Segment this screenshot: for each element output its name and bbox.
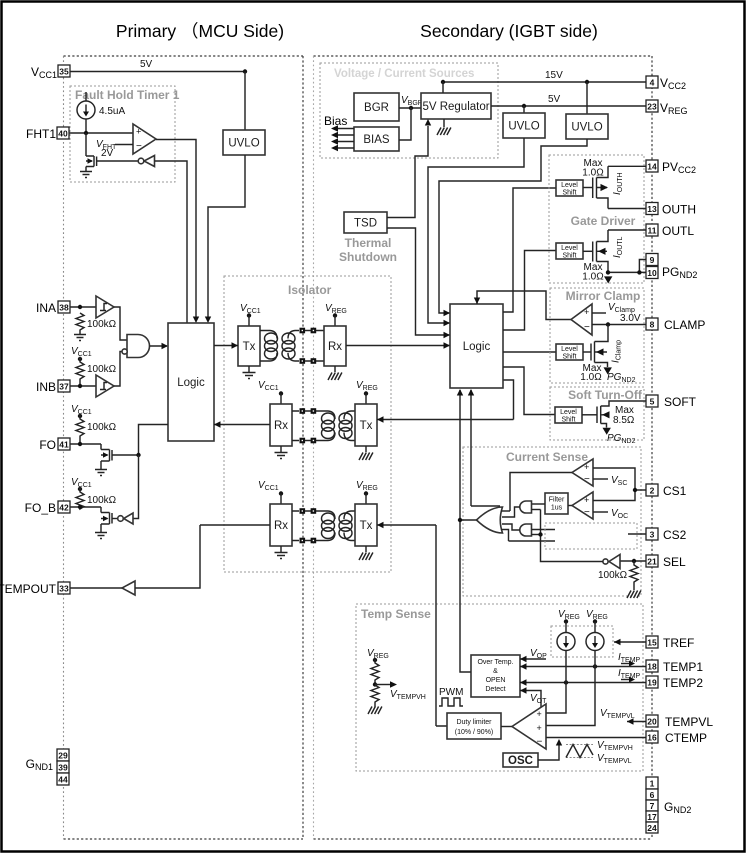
ground INA bbox=[74, 332, 86, 341]
node VCC1 INB bbox=[78, 357, 82, 361]
svg-text:CTEMP: CTEMP bbox=[665, 731, 707, 745]
wire VBGR to BIAS bbox=[399, 108, 411, 140]
CS2 inner dashed box bbox=[545, 523, 637, 549]
node 5V UVLO1 bbox=[522, 104, 526, 108]
node 15V UVLO2 bbox=[585, 80, 589, 84]
resistor FO_B pullup 100k bbox=[76, 487, 84, 509]
Rx3 box bbox=[270, 494, 292, 547]
Soft Turn-Off dashed box bbox=[550, 387, 644, 440]
isolation pads ch1 bbox=[300, 328, 325, 364]
svg-text:Shift: Shift bbox=[562, 253, 576, 260]
svg-text:−: − bbox=[584, 507, 590, 518]
svg-text:Tx: Tx bbox=[360, 420, 373, 432]
transformer ch2 right winding bbox=[339, 411, 355, 441]
svg-text:OSC: OSC bbox=[508, 755, 533, 767]
pin 4 VCC2 bbox=[646, 76, 686, 91]
svg-text:Soft Turn-Off: Soft Turn-Off bbox=[568, 388, 643, 402]
ground FHT bbox=[80, 172, 92, 178]
wire Logic to LS soft bbox=[503, 367, 555, 415]
svg-text:Mirror Clamp: Mirror Clamp bbox=[566, 289, 641, 303]
node VCC1 Rx2 bbox=[279, 391, 283, 395]
pin 23 VREG bbox=[646, 100, 688, 116]
node INB bbox=[78, 384, 82, 388]
node CS1 bbox=[633, 488, 637, 492]
node INA bbox=[78, 305, 82, 309]
svg-text:Level: Level bbox=[561, 182, 578, 189]
pin 2 CS1 bbox=[635, 484, 687, 498]
Level Shift soft bbox=[555, 407, 582, 424]
svg-text:FO_B: FO_B bbox=[25, 501, 56, 515]
node 15V regulator input bbox=[441, 80, 445, 84]
wire AND1 out to OR bbox=[502, 507, 520, 517]
pin 18 TEMP1 bbox=[646, 660, 703, 674]
node PGND2 bracket bbox=[637, 270, 641, 274]
buffer TEMPOUT bbox=[122, 581, 135, 595]
svg-text:TREF: TREF bbox=[663, 636, 694, 650]
wire logic to over temp box bbox=[460, 520, 471, 672]
Voltage / Current Sources dashed box bbox=[320, 63, 498, 158]
inverter SEL bbox=[603, 555, 620, 569]
wire INB buffer to NAND bubble bbox=[114, 352, 122, 387]
svg-text:2: 2 bbox=[650, 486, 655, 496]
BGR box bbox=[354, 93, 399, 121]
svg-text:PWM: PWM bbox=[439, 687, 463, 698]
Mirror Clamp dashed box bbox=[550, 288, 644, 383]
svg-text:1.0Ω: 1.0Ω bbox=[582, 272, 604, 283]
arrow clamp comp into Logic bbox=[474, 298, 480, 305]
wire VOC comp to filter bbox=[568, 505, 572, 507]
svg-text:15: 15 bbox=[647, 638, 657, 648]
node CLAMP bbox=[606, 322, 610, 326]
GND2 pins 1 6 7 17 24 bbox=[646, 777, 691, 833]
wire comparator out to Logic bbox=[156, 140, 196, 321]
arrow ITEMP 1 bbox=[621, 663, 630, 665]
svg-text:Bias: Bias bbox=[324, 114, 347, 128]
node VREG Tx3 bbox=[364, 491, 368, 495]
node FO gate bbox=[136, 453, 140, 457]
wire TEMP2 bbox=[520, 682, 646, 684]
BIAS box bbox=[354, 127, 399, 151]
wire INA buffer to NAND bbox=[114, 307, 127, 340]
resistor FO pullup 100k bbox=[76, 414, 84, 444]
node VREG Tx2 bbox=[364, 391, 368, 395]
OR gate overcurrent bbox=[477, 507, 503, 533]
Tx1 box bbox=[238, 316, 260, 367]
wire FO node down to inverter bbox=[133, 455, 139, 519]
svg-text:8.5Ω: 8.5Ω bbox=[613, 415, 635, 426]
arrow UVLO into Logic bbox=[205, 317, 211, 324]
wire VSC comparator output bbox=[510, 473, 572, 512]
wire CLAMP line bbox=[592, 324, 646, 326]
svg-text:7: 7 bbox=[650, 801, 655, 811]
arrow aux into box bbox=[520, 687, 527, 693]
svg-text:INB: INB bbox=[36, 380, 56, 394]
transistor FO_B NMOS bbox=[101, 513, 118, 533]
svg-text:100kΩ: 100kΩ bbox=[87, 422, 117, 433]
current source temp 2 bbox=[586, 619, 604, 650]
wire UVLO2 to Logic bbox=[439, 139, 587, 313]
wire Rx1 to Logic secondary bbox=[346, 345, 450, 347]
svg-text:37: 37 bbox=[59, 382, 69, 392]
wire VOP into box bbox=[520, 658, 546, 660]
svg-text:Voltage / Current Sources: Voltage / Current Sources bbox=[334, 68, 474, 80]
wire VFHT to comparator minus bbox=[115, 144, 133, 146]
svg-text:BGR: BGR bbox=[364, 102, 389, 114]
svg-text:100kΩ: 100kΩ bbox=[598, 570, 628, 581]
svg-text:Tx: Tx bbox=[360, 520, 373, 532]
svg-text:100kΩ: 100kΩ bbox=[87, 495, 117, 506]
svg-text:Logic: Logic bbox=[463, 341, 491, 353]
wire OR input bottom from CS2 bbox=[501, 530, 555, 542]
pin 33 TEMPOUT bbox=[0, 582, 70, 596]
wire AND2 input b bbox=[532, 534, 541, 536]
Fault Hold Timer 1 dashed box bbox=[70, 86, 175, 182]
UVLO secondary 1 bbox=[503, 106, 545, 138]
schmitt buffer INB bbox=[96, 375, 114, 397]
wire FO_B bbox=[70, 507, 110, 513]
wire VOC plus input bbox=[593, 490, 635, 501]
svg-text:14: 14 bbox=[647, 162, 657, 172]
pin 11 OUTL bbox=[608, 224, 694, 238]
svg-text:24: 24 bbox=[647, 823, 657, 833]
svg-text:TSD: TSD bbox=[354, 218, 377, 230]
Filter 1us box bbox=[545, 493, 568, 514]
svg-text:1: 1 bbox=[650, 779, 655, 789]
comparator clamp bbox=[571, 304, 592, 335]
ground 5V Regulator hatched bbox=[437, 119, 451, 135]
node VCC1 Rx3 bbox=[279, 491, 283, 495]
ground FO_B bbox=[95, 533, 107, 539]
inverter FHT bbox=[138, 156, 154, 167]
svg-text:13: 13 bbox=[647, 204, 657, 214]
svg-text:Fault Hold Timer 1: Fault Hold Timer 1 bbox=[75, 88, 180, 102]
node VCC1 Tx1 bbox=[247, 313, 251, 317]
pin 41 FO bbox=[39, 438, 70, 452]
svg-text:TEMPVL: TEMPVL bbox=[665, 715, 713, 729]
Level Shift OUTH bbox=[556, 180, 583, 197]
Logic primary box bbox=[168, 323, 214, 441]
svg-text:OPEN: OPEN bbox=[486, 677, 506, 684]
svg-text:−: − bbox=[584, 474, 590, 485]
wire Logic to LS clamp bbox=[503, 351, 556, 353]
wire Logic to LS OUTL bbox=[503, 251, 556, 331]
wire INA bbox=[70, 306, 96, 308]
isolation pads ch3 bbox=[292, 508, 322, 543]
svg-text:21: 21 bbox=[647, 557, 657, 567]
node SEL bbox=[632, 559, 636, 563]
svg-text:20: 20 bbox=[647, 717, 657, 727]
svg-text:TEMPOUT: TEMPOUT bbox=[0, 582, 57, 596]
svg-text:Duty limiter: Duty limiter bbox=[456, 719, 492, 726]
svg-text:Rx: Rx bbox=[274, 520, 288, 532]
svg-text:Level: Level bbox=[561, 346, 578, 353]
svg-text:(10% / 90%): (10% / 90%) bbox=[455, 729, 494, 736]
GND1 pins 29 39 44 bbox=[26, 749, 69, 785]
ground Tx2 hatched bbox=[359, 446, 373, 460]
AND gate 2 bbox=[520, 524, 532, 536]
arrow VTEMPVH tap bbox=[375, 684, 390, 686]
svg-text:35: 35 bbox=[59, 67, 69, 77]
svg-text:Level: Level bbox=[560, 409, 577, 416]
svg-text:19: 19 bbox=[647, 678, 657, 688]
node SEL and2 bbox=[538, 532, 542, 536]
svg-text:Logic: Logic bbox=[177, 377, 205, 389]
TSD box bbox=[344, 212, 387, 233]
svg-text:FO: FO bbox=[39, 438, 56, 452]
wire SEL to AND gates bbox=[541, 510, 604, 562]
current source 4.5uA bbox=[77, 92, 125, 133]
arrow into Tx3 bbox=[377, 522, 384, 528]
UVLO primary bbox=[223, 130, 265, 155]
wire AND1 input SEL bbox=[532, 509, 541, 511]
svg-text:38: 38 bbox=[59, 303, 69, 313]
node 5V/UVLO junction bbox=[243, 69, 247, 73]
node VCC1 FO_B bbox=[78, 487, 82, 491]
pin 13 OUTH bbox=[608, 203, 696, 217]
pin 19 TEMP2 bbox=[646, 676, 703, 690]
wire AND2 out to OR bbox=[502, 524, 520, 530]
wire 15V into regulator bbox=[442, 82, 444, 93]
UVLO secondary 2 bbox=[566, 82, 608, 139]
ground FO bbox=[95, 470, 107, 476]
svg-text:SEL: SEL bbox=[663, 555, 686, 569]
svg-text:Filter: Filter bbox=[549, 497, 565, 504]
transistor FHT NMOS bbox=[86, 133, 138, 171]
PWM square wave glyph bbox=[439, 698, 463, 706]
arrow PGND2 soft bbox=[603, 428, 611, 435]
svg-text:15V: 15V bbox=[545, 70, 563, 81]
pin 42 FO_B bbox=[25, 501, 70, 515]
wire 5V to UVLO bbox=[244, 72, 246, 131]
svg-text:CS1: CS1 bbox=[663, 484, 687, 498]
node VCC1 FO bbox=[78, 414, 82, 418]
wire Logic to Tx1 bbox=[214, 345, 238, 347]
svg-text:+: + bbox=[584, 307, 589, 317]
wire VOC minus stub bbox=[593, 511, 608, 513]
svg-text:4.5uA: 4.5uA bbox=[99, 106, 125, 117]
pin 9 PGND2 bbox=[646, 254, 658, 266]
svg-text:&: & bbox=[493, 668, 498, 675]
resistor INA pulldown 100k bbox=[76, 313, 84, 332]
comparator temp window bbox=[512, 704, 546, 749]
pin 38 INA bbox=[36, 301, 70, 315]
svg-text:4: 4 bbox=[650, 78, 655, 88]
arrow TEMP2 into box bbox=[520, 679, 527, 685]
wire 15V rail bbox=[443, 81, 646, 83]
svg-text:11: 11 bbox=[648, 226, 657, 236]
Isolator dashed box bbox=[224, 276, 391, 572]
wire detect aux to VOT node bbox=[520, 691, 541, 714]
svg-text:Tx: Tx bbox=[243, 341, 256, 353]
svg-text:39: 39 bbox=[58, 763, 68, 773]
transformer ch1 primary winding bbox=[260, 331, 278, 362]
svg-text:10: 10 bbox=[647, 268, 657, 278]
pin 14 PVCC2 bbox=[608, 160, 696, 175]
pin 40 FHT1 bbox=[26, 127, 69, 141]
svg-text:Shift: Shift bbox=[562, 190, 576, 197]
svg-text:+: + bbox=[584, 495, 589, 505]
resistor SEL 100k bbox=[630, 561, 638, 588]
wire aux to Logic bottom bbox=[471, 390, 500, 506]
svg-text:33: 33 bbox=[59, 584, 69, 594]
svg-text:SOFT: SOFT bbox=[664, 395, 697, 409]
current source temp 1 bbox=[557, 619, 575, 650]
wire Logic to FO gate node bbox=[139, 425, 169, 456]
AND gate 1 bbox=[520, 501, 532, 513]
ground divider hatched bbox=[368, 707, 382, 715]
svg-text:8: 8 bbox=[650, 320, 655, 330]
svg-text:CLAMP: CLAMP bbox=[664, 318, 705, 332]
svg-text:Detect: Detect bbox=[485, 686, 505, 693]
Rx2 box bbox=[270, 394, 292, 447]
wire source2 down bbox=[546, 651, 595, 726]
isolation pads ch2 bbox=[292, 408, 322, 443]
arrow VOP into box bbox=[520, 656, 527, 662]
svg-text:41: 41 bbox=[59, 440, 69, 450]
wire OSC to comparator bbox=[538, 744, 559, 760]
svg-text:17: 17 bbox=[647, 812, 657, 822]
svg-text:5V: 5V bbox=[548, 94, 561, 105]
arrow into Tx2 bbox=[377, 416, 384, 422]
svg-text:1.0Ω: 1.0Ω bbox=[580, 372, 602, 383]
transformer ch3 right winding bbox=[339, 511, 355, 541]
wire Logic to LS OUTH bbox=[503, 188, 556, 312]
wire Rx3 to TEMPOUT buffer bbox=[200, 524, 270, 526]
pin 20 TEMPVL bbox=[627, 715, 713, 729]
pin 10 PGND2 bbox=[646, 265, 697, 280]
wire AND2 input a bbox=[532, 529, 556, 531]
node FHT1 bbox=[84, 131, 88, 135]
Tx3 box bbox=[355, 494, 377, 547]
Gate Driver dashed box bbox=[549, 155, 644, 283]
NAND gate bbox=[122, 335, 150, 358]
comparator VSC bbox=[572, 459, 593, 486]
ground Rx2 bbox=[275, 446, 288, 459]
wire TEMPOUT bbox=[70, 525, 200, 588]
node OR logic overtemp bbox=[458, 518, 462, 522]
pin 16 CTEMP bbox=[546, 731, 707, 745]
svg-text:Shift: Shift bbox=[561, 417, 575, 424]
node VREG Rx1 bbox=[333, 313, 337, 317]
wire INB bbox=[70, 385, 96, 387]
svg-text:29: 29 bbox=[58, 751, 68, 761]
svg-text:−: − bbox=[136, 141, 142, 152]
svg-text:44: 44 bbox=[58, 775, 68, 785]
svg-text:18: 18 bbox=[647, 662, 657, 672]
svg-text:23: 23 bbox=[647, 102, 657, 112]
pin 21 SEL bbox=[620, 555, 686, 569]
svg-text:5: 5 bbox=[650, 397, 655, 407]
arrow OR into Logic bbox=[457, 389, 463, 396]
wire UVLO out to Logic bbox=[208, 155, 245, 320]
wire Rx2 to Logic primary bbox=[214, 424, 270, 426]
svg-text:UVLO: UVLO bbox=[508, 121, 539, 133]
wire clamp comparator to Logic top bbox=[477, 291, 572, 320]
pin 5 SOFT bbox=[646, 395, 697, 409]
arrow Rx2 into Logic primary bbox=[214, 421, 221, 427]
primary side outer dashed box bbox=[64, 55, 304, 57]
triangle wave glyph bbox=[566, 745, 593, 758]
wire comparator to duty limiter bbox=[501, 726, 512, 728]
arrow PGND2 clamp bbox=[604, 367, 612, 374]
transistor clamp bbox=[583, 325, 608, 368]
wire NAND out to Logic bbox=[150, 345, 168, 347]
arrow TSD into Logic bbox=[444, 332, 451, 338]
arrow NAND into Logic bbox=[162, 343, 169, 349]
wire TEMP1 bbox=[520, 666, 646, 668]
node VREG divider bbox=[373, 658, 377, 662]
wire 5V rail bbox=[70, 71, 245, 73]
ground Rx1 hatched bbox=[328, 366, 342, 380]
svg-text:Thermal: Thermal bbox=[345, 236, 392, 250]
pin 15 TREF bbox=[614, 636, 694, 650]
pin 8 CLAMP bbox=[646, 318, 705, 332]
Rx1 box bbox=[324, 316, 346, 367]
arrow comparator into Logic bbox=[193, 317, 199, 324]
svg-text:TEMP1: TEMP1 bbox=[663, 660, 703, 674]
svg-text:Level: Level bbox=[561, 245, 578, 252]
node divider tap bbox=[373, 682, 377, 686]
svg-text:+: + bbox=[537, 723, 542, 733]
transistor FO NMOS bbox=[101, 450, 139, 470]
svg-text:100kΩ: 100kΩ bbox=[87, 364, 117, 375]
arrow into Tx1 bbox=[232, 342, 239, 348]
svg-text:Rx: Rx bbox=[274, 420, 288, 432]
svg-text:BIAS: BIAS bbox=[363, 134, 390, 146]
wire source1 down bbox=[541, 651, 566, 714]
svg-text:3: 3 bbox=[650, 530, 655, 540]
Logic secondary box bbox=[450, 304, 503, 388]
Current Sense dashed box bbox=[463, 447, 641, 596]
comparator VOC bbox=[572, 492, 593, 519]
pin 35 VCC1 bbox=[31, 65, 70, 80]
svg-text:Isolator: Isolator bbox=[288, 283, 332, 297]
wire filter to AND1 bbox=[532, 503, 545, 505]
svg-text:5V Regulator: 5V Regulator bbox=[422, 101, 489, 113]
transistor OUTH bbox=[583, 166, 608, 208]
arrow UVLO2 into Logic bbox=[444, 310, 451, 316]
svg-text:Shutdown: Shutdown bbox=[339, 250, 397, 264]
wire PWM riser bbox=[436, 525, 447, 726]
wire OR input top from VSC bbox=[501, 510, 510, 512]
wire PWM to Tx3 bbox=[377, 524, 436, 526]
svg-text:9: 9 bbox=[650, 255, 655, 265]
Level Shift clamp bbox=[556, 344, 583, 361]
svg-text:6: 6 bbox=[650, 790, 655, 800]
wire OUTL source to PGND2 pins bbox=[608, 260, 646, 273]
svg-text:Shift: Shift bbox=[562, 354, 576, 361]
svg-text:5V: 5V bbox=[140, 59, 153, 70]
resistor divider bottom bbox=[371, 685, 379, 707]
ground Rx3 bbox=[275, 546, 288, 559]
svg-text:−: − bbox=[537, 737, 543, 748]
svg-text:+: + bbox=[136, 127, 141, 137]
wire inverter input from Logic bbox=[155, 161, 188, 323]
Duty limiter box bbox=[447, 713, 501, 739]
wire TSD to Logic bbox=[387, 228, 450, 335]
ground SEL hatched bbox=[627, 588, 641, 598]
arrow Rx1 into Logic bbox=[444, 342, 451, 348]
svg-text:Primary （MCU Side): Primary （MCU Side) bbox=[116, 21, 284, 41]
node FO_B bbox=[78, 505, 82, 509]
svg-text:TEMP2: TEMP2 bbox=[663, 676, 703, 690]
arrow UVLO1 into Logic bbox=[444, 320, 451, 326]
resistor INB pullup 100k bbox=[76, 357, 84, 386]
svg-text:2V: 2V bbox=[101, 148, 114, 159]
transistor soft bbox=[582, 401, 646, 428]
arrow OSC into comparator minus bbox=[556, 739, 562, 746]
wire BGR to 5V Regulator bbox=[399, 107, 421, 109]
